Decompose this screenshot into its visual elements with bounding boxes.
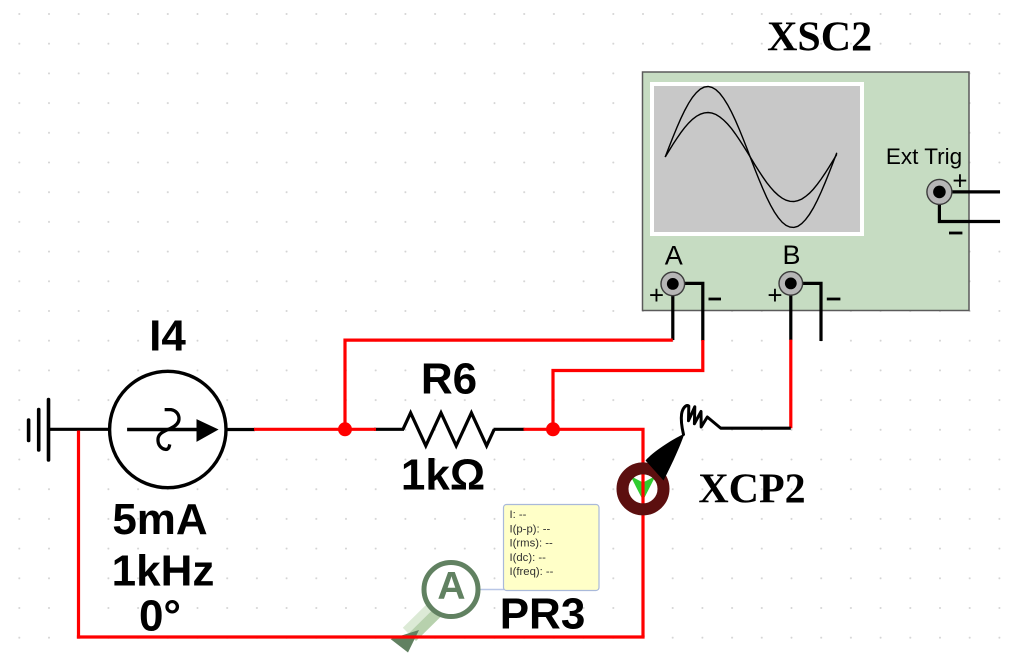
- oscilloscope XSC2 screen frame: [650, 82, 864, 236]
- current probe XCP2 ring: [623, 468, 664, 509]
- svg-text:I(freq): --: I(freq): --: [510, 566, 554, 578]
- probe PR3 leader line: [478, 589, 504, 591]
- probe PR3 arrowhead: [391, 630, 420, 653]
- label ExtTrig minus: [949, 232, 962, 235]
- probe PR3 circle: [424, 563, 478, 617]
- svg-text:I4: I4: [149, 311, 186, 360]
- label A minus: [709, 298, 722, 301]
- svg-text:1kHz: 1kHz: [112, 546, 215, 595]
- svg-text:Ext Trig: Ext Trig: [886, 144, 962, 169]
- junction node B: [546, 422, 560, 436]
- wire red: scope B+ down: [789, 340, 792, 429]
- junction node A: [338, 422, 352, 436]
- svg-text:A: A: [665, 241, 683, 271]
- oscilloscope terminal A: [661, 272, 685, 296]
- resistor R6 left lead: [374, 428, 404, 431]
- svg-text:I(rms): --: I(rms): --: [510, 538, 554, 550]
- svg-text:B: B: [782, 240, 800, 270]
- current probe XCP2 cable squiggle: [681, 406, 720, 435]
- oscilloscope waveform trace small: [665, 113, 837, 202]
- oscilloscope terminal ExtTrig: [927, 179, 952, 204]
- tooltip box PR3 readout: [504, 505, 600, 591]
- oscilloscope XSC2 screen: [654, 86, 860, 232]
- oscilloscope waveform trace large: [665, 87, 837, 228]
- oscilloscope terminal B: [779, 272, 803, 296]
- oscilloscope pin A+ stub: [671, 284, 674, 340]
- probe lead black XCP2 to scope B+: [721, 427, 791, 430]
- svg-text:A: A: [437, 565, 465, 608]
- svg-text:I(dc): --: I(dc): --: [510, 552, 547, 564]
- svg-text:+: +: [649, 280, 664, 310]
- svg-text:1kΩ: 1kΩ: [401, 451, 485, 500]
- svg-text:XCP2: XCP2: [698, 467, 805, 513]
- svg-text:+: +: [767, 280, 782, 310]
- wire red: bottom rail: [77, 635, 645, 638]
- oscilloscope pin ExtTrig+ wire: [945, 190, 1000, 193]
- resistor R6 right lead: [494, 428, 525, 431]
- oscilloscope pin B+ stub: [789, 284, 792, 340]
- oscilloscope pin A- stub: [673, 283, 703, 341]
- ground: [29, 400, 49, 461]
- wire red: ground tap down: [77, 431, 80, 639]
- oscilloscope XSC2 body: [643, 72, 970, 311]
- svg-text:I(p-p): --: I(p-p): --: [510, 523, 551, 535]
- svg-text:I: --: I: --: [510, 509, 527, 521]
- svg-text:PR3: PR3: [500, 590, 586, 639]
- resistor R6 body: [403, 413, 494, 446]
- probe PR3 arrow shaft: [403, 600, 445, 642]
- current source I4 sine symbol: [158, 410, 179, 450]
- oscilloscope pin ExtTrig- wire: [939, 203, 1000, 222]
- wire red: R6 right lead to node B: [524, 428, 555, 431]
- oscilloscope pin B- stub: [791, 283, 821, 341]
- wire ground to source: [49, 428, 110, 431]
- current probe XCP2 green arrow: [631, 476, 656, 501]
- svg-text:0°: 0°: [139, 592, 181, 641]
- current source I4 circle: [110, 371, 226, 487]
- svg-text:+: +: [952, 166, 967, 196]
- svg-text:XSC2: XSC2: [767, 15, 872, 61]
- wire source to node A (black lead): [226, 428, 255, 431]
- current source I4 arrow: [127, 419, 219, 442]
- wire red: source to node A: [254, 428, 376, 431]
- current probe XCP2 clamp cone: [646, 434, 685, 481]
- label B minus: [827, 298, 841, 301]
- wire red: node B to scope A-: [553, 340, 703, 429]
- svg-text:R6: R6: [421, 354, 477, 403]
- svg-text:5mA: 5mA: [112, 495, 207, 544]
- wire red: node B to XCP2 down to bottom rail: [553, 429, 643, 637]
- wire red: node A to scope A+: [345, 340, 673, 429]
